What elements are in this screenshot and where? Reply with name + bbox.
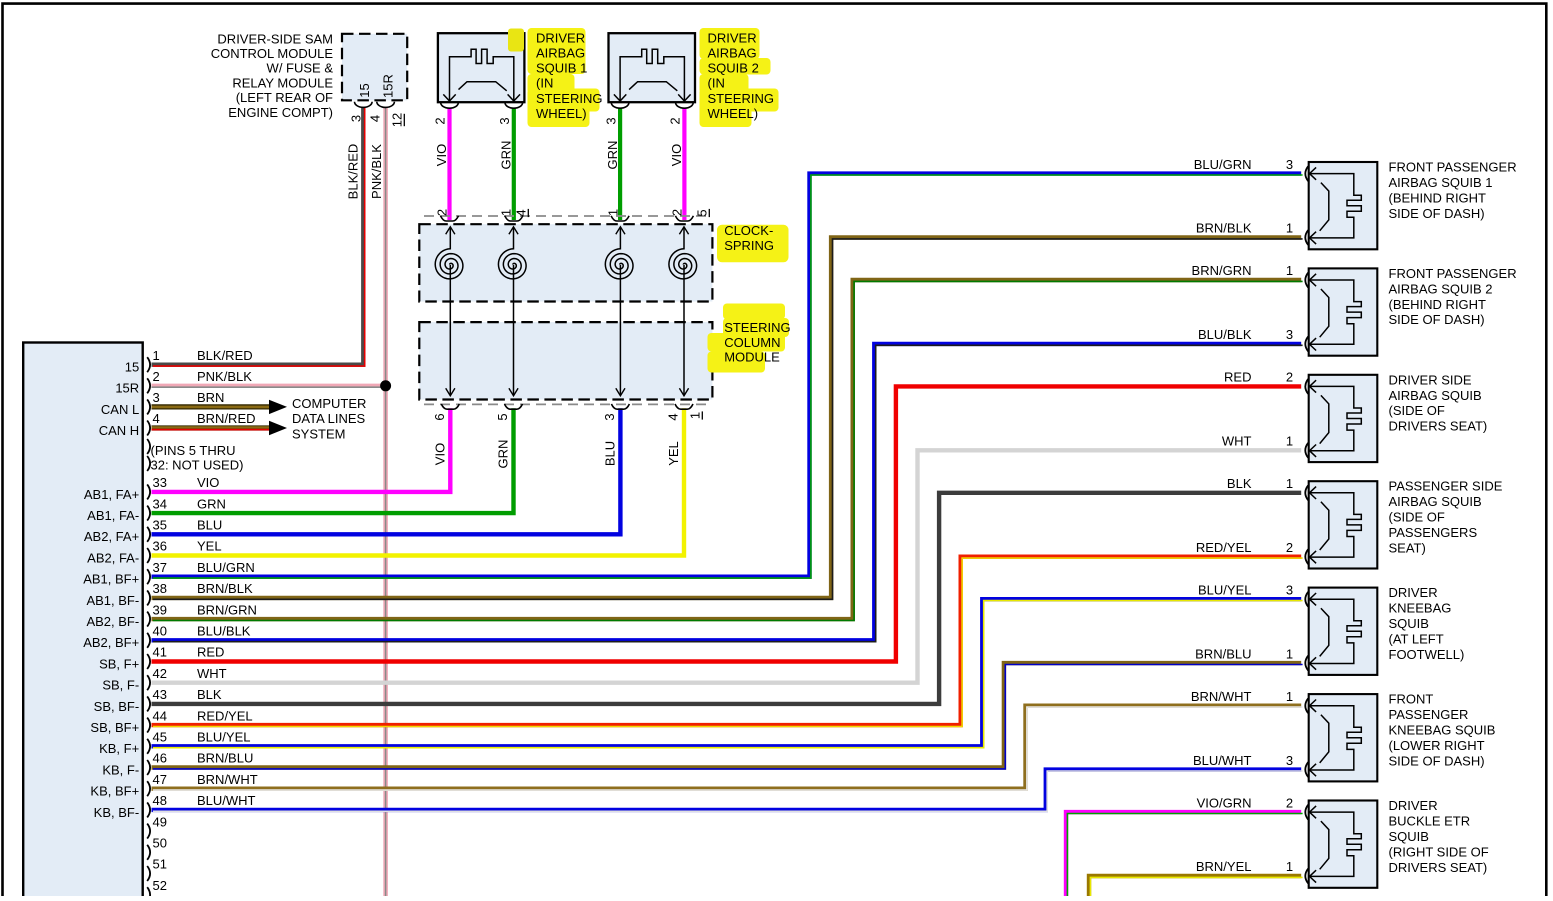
svg-text:(PINS 5 THRU: (PINS 5 THRU [151,443,236,458]
svg-text:FRONT PASSENGER: FRONT PASSENGER [1389,266,1517,281]
svg-text:PNK/BLK: PNK/BLK [197,369,252,384]
svg-text:GRN: GRN [605,141,620,170]
svg-text:BRN/GRN: BRN/GRN [1192,263,1252,278]
svg-text:SB, BF+: SB, BF+ [90,720,139,735]
svg-text:FOOTWELL): FOOTWELL) [1389,647,1465,662]
svg-text:51: 51 [153,857,167,872]
svg-text:KB, F-: KB, F- [102,762,139,777]
svg-text:40: 40 [153,624,167,639]
svg-text:32: NOT USED): 32: NOT USED) [151,457,244,472]
svg-text:1: 1 [1286,859,1293,874]
svg-text:SQUIB 1: SQUIB 1 [536,61,587,76]
svg-text:RED/YEL: RED/YEL [1196,540,1252,555]
svg-text:STEERING: STEERING [708,91,774,106]
svg-text:BRN/GRN: BRN/GRN [197,602,257,617]
svg-text:3: 3 [153,390,160,405]
svg-text:35: 35 [153,518,167,533]
svg-text:1: 1 [1286,221,1293,236]
svg-text:41: 41 [153,645,167,660]
svg-text:BRN/RED: BRN/RED [197,411,256,426]
svg-text:BRN: BRN [197,390,224,405]
svg-text:(IN: (IN [708,76,725,91]
svg-text:(BEHIND RIGHT: (BEHIND RIGHT [1389,190,1487,205]
svg-text:COLUMN: COLUMN [724,335,780,350]
svg-text:PNK/BLK: PNK/BLK [369,144,384,199]
svg-text:6: 6 [432,413,447,420]
svg-text:VIO: VIO [197,475,219,490]
svg-text:KB, F+: KB, F+ [99,741,139,756]
svg-text:BLU/WHT: BLU/WHT [1193,753,1252,768]
svg-text:1: 1 [1286,434,1293,449]
svg-text:3: 3 [1286,753,1293,768]
svg-text:42: 42 [153,666,167,681]
svg-text:KB, BF-: KB, BF- [94,805,140,820]
svg-text:RED: RED [197,645,224,660]
svg-text:AB2, BF-: AB2, BF- [86,614,139,629]
svg-text:SEAT): SEAT) [1389,541,1426,556]
svg-text:4: 4 [368,115,383,122]
svg-text:DRIVER: DRIVER [536,30,585,45]
svg-text:4: 4 [153,411,160,426]
svg-text:48: 48 [153,793,167,808]
svg-text:52: 52 [153,878,167,893]
svg-text:AIRBAG SQUIB 2: AIRBAG SQUIB 2 [1389,281,1493,296]
svg-text:SIDE OF DASH): SIDE OF DASH) [1389,206,1485,221]
svg-text:KB, BF+: KB, BF+ [90,784,139,799]
svg-text:FRONT PASSENGER: FRONT PASSENGER [1389,160,1517,175]
svg-text:SB, F-: SB, F- [102,678,139,693]
svg-text:BLU/YEL: BLU/YEL [1198,582,1251,597]
svg-text:4: 4 [514,209,529,216]
svg-text:BRN/WHT: BRN/WHT [197,772,258,787]
svg-text:AIRBAG SQUIB 1: AIRBAG SQUIB 1 [1389,175,1493,190]
svg-text:(AT LEFT: (AT LEFT [1389,632,1444,647]
svg-text:33: 33 [153,475,167,490]
svg-text:37: 37 [153,560,167,575]
svg-text:BLU/YEL: BLU/YEL [197,730,250,745]
svg-text:GRN: GRN [496,440,511,469]
svg-text:3: 3 [1286,327,1293,342]
svg-text:AB1, BF-: AB1, BF- [86,593,139,608]
svg-text:BRN/BLU: BRN/BLU [197,751,253,766]
svg-text:2: 2 [670,209,685,216]
svg-text:DRIVER-SIDE SAM: DRIVER-SIDE SAM [217,31,333,46]
svg-text:WHEEL): WHEEL) [536,106,587,121]
svg-text:1: 1 [688,412,703,419]
svg-text:12: 12 [390,113,405,127]
svg-text:SIDE OF DASH): SIDE OF DASH) [1389,753,1485,768]
svg-text:(IN: (IN [536,76,553,91]
svg-text:49: 49 [153,814,167,829]
svg-text:44: 44 [153,708,167,723]
svg-text:1: 1 [153,348,160,363]
svg-text:YEL: YEL [197,539,222,554]
svg-text:4: 4 [666,413,681,420]
svg-text:2: 2 [433,117,448,124]
svg-text:DRIVER: DRIVER [708,30,757,45]
svg-text:2: 2 [1286,540,1293,555]
svg-text:(RIGHT SIDE OF: (RIGHT SIDE OF [1389,844,1489,859]
svg-text:BLK/RED: BLK/RED [197,348,253,363]
svg-text:GRN: GRN [197,496,226,511]
svg-text:45: 45 [153,730,167,745]
svg-text:2: 2 [153,369,160,384]
svg-text:WHT: WHT [1222,434,1252,449]
svg-text:2: 2 [1286,370,1293,385]
svg-text:AIRBAG: AIRBAG [708,45,757,60]
svg-text:CONTROL MODULE: CONTROL MODULE [211,46,334,61]
svg-text:AB1, FA-: AB1, FA- [87,508,139,523]
svg-text:1: 1 [1286,646,1293,661]
svg-text:34: 34 [153,496,167,511]
svg-text:3: 3 [497,117,512,124]
svg-text:AB2, FA-: AB2, FA- [87,550,139,565]
svg-text:DRIVERS SEAT): DRIVERS SEAT) [1389,860,1488,875]
svg-text:DRIVERS SEAT): DRIVERS SEAT) [1389,419,1488,434]
svg-text:SQUIB 2: SQUIB 2 [708,61,759,76]
svg-text:SQUIB: SQUIB [1389,829,1429,844]
svg-text:FRONT: FRONT [1389,692,1434,707]
svg-text:ENGINE COMPT): ENGINE COMPT) [228,105,333,120]
svg-text:DRIVER SIDE: DRIVER SIDE [1389,372,1472,387]
svg-text:SB, BF-: SB, BF- [94,699,140,714]
svg-text:(SIDE OF: (SIDE OF [1389,403,1445,418]
svg-text:KNEEBAG SQUIB: KNEEBAG SQUIB [1389,723,1496,738]
svg-text:2: 2 [668,117,683,124]
svg-text:3: 3 [349,115,364,122]
svg-text:(SIDE OF: (SIDE OF [1389,510,1445,525]
svg-text:3: 3 [1286,157,1293,172]
svg-text:WHEEL): WHEEL) [708,106,759,121]
svg-text:1: 1 [605,209,620,216]
svg-text:DRIVER: DRIVER [1389,585,1438,600]
svg-text:3: 3 [1286,582,1293,597]
svg-text:50: 50 [153,836,167,851]
svg-text:(LOWER RIGHT: (LOWER RIGHT [1389,738,1485,753]
svg-text:BRN/BLU: BRN/BLU [1195,646,1251,661]
svg-text:WHT: WHT [197,666,227,681]
svg-text:BRN/WHT: BRN/WHT [1191,689,1252,704]
svg-text:BLU/GRN: BLU/GRN [197,560,255,575]
svg-text:CAN H: CAN H [99,423,139,438]
svg-text:AIRBAG SQUIB: AIRBAG SQUIB [1389,494,1482,509]
svg-text:15: 15 [357,83,372,97]
svg-text:BLK: BLK [1227,476,1252,491]
svg-text:BLU/GRN: BLU/GRN [1194,157,1252,172]
svg-text:CAN L: CAN L [101,402,139,417]
svg-text:39: 39 [153,602,167,617]
svg-text:VIO: VIO [434,144,449,166]
svg-text:MODULE: MODULE [724,350,780,365]
svg-text:SB, F+: SB, F+ [99,656,139,671]
svg-text:YEL: YEL [666,441,681,466]
svg-text:46: 46 [153,751,167,766]
svg-text:AB2, BF+: AB2, BF+ [83,635,139,650]
svg-text:SPRING: SPRING [724,238,774,253]
svg-text:STEERING: STEERING [536,91,602,106]
svg-text:15: 15 [125,360,139,375]
svg-text:SQUIB: SQUIB [1389,616,1429,631]
svg-text:2: 2 [435,209,450,216]
svg-text:STEERING: STEERING [724,320,790,335]
svg-text:VIO/GRN: VIO/GRN [1197,795,1252,810]
svg-text:COMPUTER: COMPUTER [292,396,366,411]
svg-text:BLU/BLK: BLU/BLK [197,624,251,639]
svg-text:AB1, FA+: AB1, FA+ [84,487,139,502]
svg-text:CLOCK-: CLOCK- [724,223,773,238]
svg-text:PASSENGER: PASSENGER [1389,707,1469,722]
svg-text:36: 36 [153,539,167,554]
svg-text:15R: 15R [381,74,396,98]
svg-text:5: 5 [495,413,510,420]
svg-text:SIDE OF DASH): SIDE OF DASH) [1389,312,1485,327]
svg-text:RED/YEL: RED/YEL [197,708,253,723]
svg-text:VIO: VIO [433,443,448,465]
svg-text:43: 43 [153,687,167,702]
svg-text:15R: 15R [115,381,139,396]
svg-text:3: 3 [602,413,617,420]
svg-text:BLU: BLU [197,518,222,533]
svg-text:VIO: VIO [669,144,684,166]
svg-text:1: 1 [1286,689,1293,704]
svg-text:5: 5 [695,209,710,216]
svg-text:RELAY MODULE: RELAY MODULE [232,76,333,91]
svg-text:(LEFT REAR OF: (LEFT REAR OF [236,90,333,105]
svg-text:3: 3 [603,117,618,124]
svg-text:AB1, BF+: AB1, BF+ [83,572,139,587]
svg-text:KNEEBAG: KNEEBAG [1389,601,1452,616]
svg-text:BLU/BLK: BLU/BLK [1198,327,1252,342]
svg-text:SYSTEM: SYSTEM [292,426,345,441]
svg-text:PASSENGERS: PASSENGERS [1389,525,1478,540]
svg-text:2: 2 [1286,795,1293,810]
svg-text:BRN/YEL: BRN/YEL [1196,859,1252,874]
svg-text:BRN/BLK: BRN/BLK [1196,221,1252,236]
svg-text:GRN: GRN [499,141,514,170]
svg-text:W/ FUSE &: W/ FUSE & [267,61,334,76]
svg-text:AB2, FA+: AB2, FA+ [84,529,139,544]
svg-text:PASSENGER SIDE: PASSENGER SIDE [1389,479,1503,494]
svg-text:1: 1 [1286,263,1293,278]
svg-text:BLU/WHT: BLU/WHT [197,793,256,808]
svg-text:BLK: BLK [197,687,222,702]
svg-text:47: 47 [153,772,167,787]
svg-text:BRN/BLK: BRN/BLK [197,581,253,596]
svg-text:RED: RED [1224,370,1251,385]
svg-text:AIRBAG: AIRBAG [536,45,585,60]
svg-text:DRIVER: DRIVER [1389,798,1438,813]
svg-text:38: 38 [153,581,167,596]
svg-text:BLK/RED: BLK/RED [346,144,361,200]
svg-text:1: 1 [499,209,514,216]
svg-text:1: 1 [1286,476,1293,491]
svg-text:BLU: BLU [603,441,618,466]
svg-text:(BEHIND RIGHT: (BEHIND RIGHT [1389,297,1487,312]
svg-text:DATA LINES: DATA LINES [292,411,366,426]
svg-text:BUCKLE ETR: BUCKLE ETR [1389,814,1471,829]
svg-text:AIRBAG SQUIB: AIRBAG SQUIB [1389,388,1482,403]
